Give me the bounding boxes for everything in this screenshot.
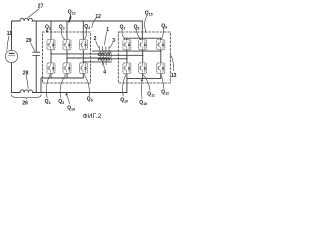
brace 26 xyxy=(11,95,41,99)
switch Q9 cell xyxy=(157,40,165,50)
wire phase tap A right xyxy=(93,50,161,52)
svg-text:Q14: Q14 xyxy=(67,105,75,111)
wire left bridge bottom rail xyxy=(41,78,83,93)
svg-text:3: 3 xyxy=(112,38,115,44)
source 11 xyxy=(5,50,17,62)
transformer 1 winding block xyxy=(98,50,112,60)
svg-text:28: 28 xyxy=(23,70,29,76)
svg-text:Q9: Q9 xyxy=(161,24,167,30)
label Q14 leader xyxy=(66,93,70,104)
label Q11 leader xyxy=(143,75,150,91)
svg-text:2: 2 xyxy=(94,36,97,42)
switch Q2 cell xyxy=(63,40,71,50)
switch Q11 cell xyxy=(139,63,147,73)
wire phase tap B right xyxy=(99,54,143,56)
wire left rail xyxy=(11,21,13,93)
svg-text:4: 4 xyxy=(103,70,106,76)
inverter bridge 12 dashed box xyxy=(43,32,91,83)
label Q5 leader xyxy=(60,75,65,98)
wire left bridge column feeds xyxy=(51,21,83,40)
wire left bridge midpoints xyxy=(51,50,83,63)
label Q7 leader xyxy=(122,29,125,39)
svg-text:29: 29 xyxy=(26,38,32,44)
inductor 28 xyxy=(20,90,33,93)
svg-text:Q16: Q16 xyxy=(139,100,147,106)
svg-text:Q12: Q12 xyxy=(161,89,169,95)
label Q3 leader xyxy=(85,29,87,39)
switch Q4 cell xyxy=(47,63,55,73)
svg-text:11: 11 xyxy=(7,31,13,37)
svg-text:Q15: Q15 xyxy=(145,11,153,17)
label 29 leader xyxy=(31,43,35,51)
label 27 leader xyxy=(28,9,39,18)
label Q13 leader xyxy=(68,15,71,23)
svg-text:Q3: Q3 xyxy=(84,24,90,30)
label 28 leader xyxy=(26,75,28,88)
svg-text:Q13: Q13 xyxy=(68,9,76,15)
label 13 leader xyxy=(171,55,174,71)
inductor 27 xyxy=(20,18,33,21)
label Q16 leader xyxy=(141,79,143,99)
wire right bridge bottoms xyxy=(127,73,161,78)
transformer bottom terminals xyxy=(102,60,106,65)
svg-text:ФИГ.2: ФИГ.2 xyxy=(83,113,102,120)
svg-text:Q6: Q6 xyxy=(87,96,93,102)
svg-text:Q11: Q11 xyxy=(147,91,155,97)
label 11 leader xyxy=(7,36,9,51)
switch Q6 cell xyxy=(79,63,87,73)
wire phase tap C left xyxy=(83,61,111,63)
svg-text:Q10: Q10 xyxy=(120,97,128,103)
capacitor C29 xyxy=(33,21,40,93)
wire right bridge feed xyxy=(141,21,143,40)
label Q2 leader xyxy=(61,29,64,39)
switch Q8 cell xyxy=(139,40,147,50)
label 3 leader xyxy=(110,43,113,48)
wire phase tap A left xyxy=(51,53,103,55)
label 1 leader xyxy=(105,32,107,45)
svg-text:Q1: Q1 xyxy=(45,24,51,30)
label Q1 leader xyxy=(46,29,48,32)
wire right bridge top rail xyxy=(125,38,161,39)
svg-text:Q4: Q4 xyxy=(45,99,51,105)
switch Q1 cell xyxy=(47,40,55,50)
label Q8 leader xyxy=(136,29,141,39)
wire right bridge midpoints xyxy=(127,50,161,63)
transformer top terminals xyxy=(99,46,109,50)
wire top DC rail xyxy=(12,20,143,22)
label 12 leader xyxy=(92,19,96,28)
svg-text:26: 26 xyxy=(22,100,28,106)
wire left bridge bottoms xyxy=(51,73,83,78)
label Q6 leader xyxy=(84,75,89,96)
switch Q12 cell xyxy=(157,63,165,73)
switch Q3 cell xyxy=(79,40,87,50)
label Q12 leader xyxy=(161,75,164,89)
wire right bridge bottom rail xyxy=(127,79,161,93)
wire phase tap B left xyxy=(67,57,107,59)
svg-text:Q2: Q2 xyxy=(59,24,65,30)
svg-text:27: 27 xyxy=(38,4,44,10)
wire bottom bus xyxy=(12,92,127,94)
svg-text:Q8: Q8 xyxy=(134,24,140,30)
svg-text:12: 12 xyxy=(95,14,101,20)
rectifier bridge 13 dashed box xyxy=(118,32,170,83)
svg-text:1: 1 xyxy=(106,27,109,33)
label 2 leader xyxy=(96,41,99,48)
svg-text:Q7: Q7 xyxy=(120,24,126,30)
switch Q7 cell xyxy=(123,40,131,50)
label Q4 leader xyxy=(46,75,50,98)
node taps right xyxy=(126,50,161,59)
node taps left xyxy=(50,53,84,62)
switch Q10 cell xyxy=(123,63,131,73)
label Q15 leader xyxy=(145,16,147,33)
wire phase tap C right xyxy=(99,58,127,60)
svg-text:13: 13 xyxy=(171,73,177,79)
label 4 leader xyxy=(104,63,105,69)
switch Q5 cell xyxy=(63,63,71,73)
label Q9 leader xyxy=(161,28,163,39)
svg-text:Q5: Q5 xyxy=(58,99,64,105)
label Q10 leader xyxy=(122,75,125,96)
